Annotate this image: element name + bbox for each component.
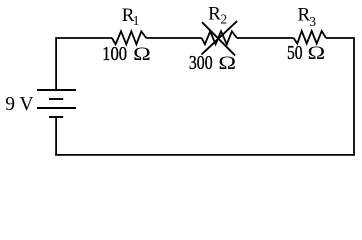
svg-text:R2: R2 <box>208 3 227 26</box>
wire R1 to R2 <box>146 37 201 39</box>
svg-text:R3: R3 <box>298 5 317 29</box>
battery B1 plate short bottom <box>49 116 63 118</box>
resistor R1 <box>112 31 146 44</box>
battery B1 plate short <box>49 98 63 100</box>
wire bottom <box>55 154 355 156</box>
svg-text:Ω: Ω <box>133 43 151 64</box>
resistor R2 <box>202 31 237 44</box>
wire top-right segment <box>326 37 354 39</box>
svg-text:50: 50 <box>287 41 303 63</box>
svg-text:Ω: Ω <box>218 52 236 73</box>
battery B1 plate long top <box>37 89 76 91</box>
fault cross line 2 over R2 <box>202 21 238 54</box>
resistor R3 <box>294 31 326 44</box>
svg-text:R1: R1 <box>122 5 140 28</box>
wire R2 to R3 <box>237 37 294 39</box>
fault cross line 1 over R2 <box>202 22 235 55</box>
wire top-left segment <box>56 38 112 90</box>
wire right vertical <box>353 37 355 156</box>
battery B1 plate long bottom <box>37 107 76 109</box>
svg-text:300: 300 <box>189 51 213 73</box>
wire bottom-left vertical <box>55 117 57 156</box>
svg-text:100: 100 <box>102 42 127 64</box>
svg-text:9 V: 9 V <box>5 94 33 115</box>
svg-text:Ω: Ω <box>308 42 326 63</box>
